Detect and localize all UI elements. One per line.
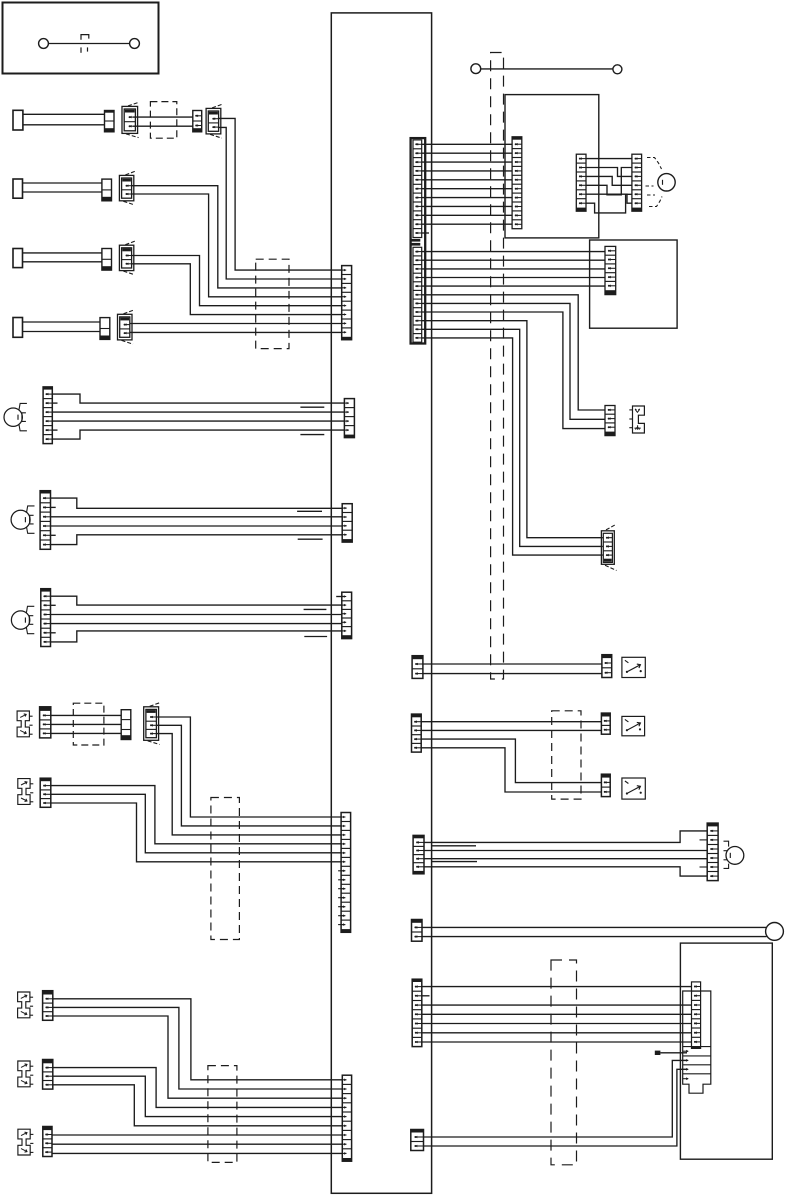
wire — [51, 794, 341, 853]
switch S4 — [18, 1061, 30, 1087]
wire — [23, 321, 101, 323]
wire — [52, 1152, 342, 1154]
connector X8 (6 cells) — [41, 589, 51, 647]
plug P1 — [13, 110, 23, 130]
dashed boundary (bottom rows) — [208, 1066, 237, 1163]
wire — [52, 1134, 342, 1136]
pin stub — [338, 897, 344, 899]
wire — [421, 721, 601, 723]
wire — [52, 430, 344, 439]
wire — [423, 673, 602, 675]
wire harness pin 4 to module M1 — [422, 170, 512, 172]
wire harness pin 7 to module M1 — [422, 197, 512, 199]
wire — [51, 714, 121, 716]
connector housing X10b — [144, 707, 159, 741]
pin stub — [338, 915, 344, 917]
lamp L2 — [11, 510, 30, 529]
wire J6-K5 — [586, 194, 632, 213]
wire harness pin 8 to module M1 — [422, 205, 512, 207]
wire — [51, 723, 121, 725]
wire harness pin 6 to module M1 — [422, 188, 512, 190]
plug P3 — [13, 249, 23, 268]
wire — [424, 858, 707, 860]
connector housing X1b — [122, 106, 138, 133]
wire — [660, 1052, 687, 1054]
wire — [132, 264, 342, 315]
switch S2 — [18, 779, 30, 805]
wire harness to X15 — [422, 295, 605, 410]
harness header frame — [411, 138, 426, 343]
dashed boundary (switch row 1) — [73, 703, 104, 745]
wire — [424, 1060, 688, 1137]
wire — [51, 631, 342, 642]
module connector strip N (7 cells) — [692, 982, 701, 1049]
connector X13 (3 cells) — [43, 1060, 53, 1090]
wire — [51, 516, 343, 518]
plug P2 — [13, 179, 23, 198]
wire harness pin 5 to module M1 — [422, 179, 512, 181]
dashed harness boundary (vertical) — [491, 53, 504, 680]
wire — [132, 194, 342, 297]
wire harness to module M2 pin 3 — [422, 268, 605, 270]
wire — [422, 1032, 692, 1034]
wire — [218, 127, 342, 279]
motor M — [658, 174, 675, 191]
wire harness to module M2 pin 4 — [422, 277, 605, 279]
wire — [51, 614, 342, 616]
wire — [52, 394, 344, 403]
switch S5 — [18, 1129, 30, 1155]
wire — [422, 1004, 692, 1006]
wire harness pin 3 to module M1 — [422, 161, 512, 163]
wire J2-K3 — [586, 168, 632, 177]
connector X12 (3 cells) — [43, 991, 53, 1021]
connector X2a — [193, 111, 202, 132]
pin arrow — [683, 1050, 689, 1052]
connector housing X16 — [601, 531, 614, 565]
wire J4-K2 — [586, 168, 632, 195]
splice bar W1 — [471, 64, 481, 74]
connector X24 (2 cells) — [412, 920, 423, 942]
connector X14 (3 cells) — [43, 1127, 52, 1157]
wire harness pin 9 to module M1 — [422, 214, 512, 216]
wire — [51, 498, 343, 508]
dashed boundary (switch rows) — [211, 798, 240, 940]
wire — [53, 1085, 343, 1126]
pin stub — [338, 879, 344, 881]
wire — [422, 338, 603, 555]
shield stub — [432, 861, 477, 863]
wire — [421, 739, 601, 783]
wire — [422, 986, 692, 988]
harness connector strip E (13 cells) — [341, 813, 351, 933]
wire — [53, 1076, 343, 1116]
wire — [422, 329, 603, 546]
harness connector strip H (11 cells) — [413, 247, 422, 342]
pin arrow — [683, 1068, 689, 1070]
wire — [52, 1143, 342, 1145]
connector X19 (4 cells) — [412, 714, 422, 752]
wire J5-K6 — [586, 194, 632, 203]
wire stub — [336, 596, 343, 598]
wire — [424, 867, 707, 876]
wire — [23, 113, 105, 115]
wire — [422, 303, 605, 419]
wire stub — [51, 506, 56, 508]
wire — [422, 1013, 692, 1015]
wire — [156, 717, 341, 817]
wire harness to module M2 pin 5 — [422, 285, 605, 287]
connector X6 (6 cells) — [43, 387, 52, 444]
central harness box — [331, 13, 431, 1193]
wire — [156, 734, 341, 835]
wire stub — [52, 429, 57, 431]
wire — [130, 331, 342, 333]
wire stub — [51, 604, 56, 606]
dashed boundary (row 1) — [150, 102, 176, 139]
connector X5a — [100, 318, 110, 340]
pin arrow — [683, 1059, 689, 1061]
wire — [23, 124, 105, 126]
pin arrow — [683, 1078, 689, 1080]
shield stub — [300, 434, 324, 436]
wire — [52, 420, 344, 422]
ring terminal — [766, 923, 784, 941]
connector X20 (2 cells) — [601, 713, 610, 734]
wire — [132, 256, 342, 306]
wire — [23, 191, 102, 193]
module connector strip L (5 cells) — [605, 246, 616, 294]
module connector strip I (10 cells) — [512, 137, 522, 229]
connector X11 (3 cells) — [40, 778, 51, 807]
wire harness pin 1 to module M1 — [422, 143, 512, 145]
harness connector strip G (11 cells) — [413, 140, 422, 238]
wire — [130, 323, 342, 325]
wire — [52, 411, 344, 413]
wire — [51, 525, 343, 527]
lamp L4 — [726, 847, 744, 865]
wire — [422, 926, 766, 928]
wire — [423, 663, 602, 665]
connector housing X4b — [119, 245, 133, 270]
wire — [51, 786, 341, 844]
lamp L1 — [4, 408, 22, 426]
fuse F1 — [39, 39, 49, 49]
connector X26 (2 cells) — [411, 1130, 424, 1151]
wire harness to module M2 pin 1 — [422, 251, 605, 253]
harness connector strip A (8 cells) — [342, 266, 352, 340]
dashed boundary (rows 1-4) — [256, 259, 289, 348]
wire stub — [52, 402, 57, 404]
wire — [51, 535, 343, 545]
module box M2 — [590, 240, 678, 328]
wire — [23, 261, 102, 263]
wire — [424, 850, 707, 852]
connector X15 (3 cells) — [605, 406, 615, 436]
connector X17 (2 cells) — [412, 656, 423, 679]
switch S9 — [622, 778, 645, 799]
wire — [51, 623, 342, 625]
harness connector strip C (4 cells) — [342, 504, 352, 542]
wire — [53, 1016, 343, 1098]
separator — [412, 243, 421, 246]
shield stub — [298, 538, 323, 540]
pin stub — [338, 924, 344, 926]
wire — [422, 1023, 692, 1025]
plug P4 — [13, 318, 23, 338]
wire — [421, 729, 601, 731]
wire — [424, 831, 707, 843]
connector X4a — [102, 249, 112, 271]
wire — [23, 331, 101, 333]
pin stub — [338, 888, 344, 890]
wire J3-K4 — [586, 176, 632, 185]
wire harness pin 10 to module M1 — [422, 223, 512, 225]
module box M1 — [505, 95, 599, 238]
connector X10a — [121, 710, 131, 740]
wire harness to X16 — [422, 321, 603, 538]
connector housing X3b — [119, 175, 133, 200]
wire — [218, 118, 342, 270]
wire J1-K1 — [586, 158, 632, 160]
shield stub — [304, 608, 327, 610]
pin stub — [338, 870, 344, 872]
connector X1a — [105, 111, 115, 132]
lamp L3 — [11, 611, 29, 629]
wire stub — [422, 232, 429, 234]
wire — [156, 725, 341, 826]
switch S1 — [17, 711, 29, 737]
connector X21 (2 cells) — [601, 774, 610, 796]
module box M3 — [680, 943, 772, 1159]
wire harness pin 2 to module M1 — [422, 152, 512, 154]
separator — [412, 239, 421, 242]
switch S7 — [622, 657, 645, 677]
wire — [132, 186, 342, 288]
pin stub — [700, 866, 708, 868]
pin stub — [338, 906, 344, 908]
wire — [53, 1068, 343, 1108]
wire — [23, 252, 102, 254]
wire stub — [422, 995, 430, 997]
connector X23 (6 cells) — [707, 823, 718, 881]
dashed boundary (bottom right) — [551, 960, 577, 1165]
connector housing X5b — [118, 314, 133, 340]
module rows — [683, 1046, 711, 1048]
connector X3a — [102, 179, 112, 201]
wire — [133, 116, 150, 118]
shield stub — [297, 510, 322, 512]
switch S8 — [622, 716, 645, 735]
motor driver strip J (6 cells) — [576, 154, 586, 211]
pin stub — [700, 839, 708, 841]
connector housing X2b — [206, 108, 221, 133]
wire — [53, 999, 343, 1080]
connector X25 (7 cells) — [412, 979, 422, 1046]
wire — [424, 1069, 688, 1146]
wire — [53, 1007, 343, 1089]
switch S6 — [633, 406, 645, 433]
dashed boundary (right row 2) — [552, 711, 581, 799]
motor connector strip K (6 cells) — [632, 154, 642, 211]
connector X9 (3 cells) — [40, 707, 51, 738]
wire — [422, 1041, 692, 1043]
wire — [51, 803, 341, 862]
wire stub — [51, 632, 56, 634]
harness connector strip F (9 cells) — [342, 1075, 351, 1161]
wire — [422, 936, 767, 938]
wire — [422, 312, 605, 429]
splice dot — [655, 1051, 661, 1055]
shield stub — [432, 845, 476, 847]
shield stub — [304, 636, 327, 638]
shield stub — [300, 406, 324, 408]
harness connector strip B (4 cells) — [344, 399, 354, 438]
wire — [51, 732, 121, 734]
wire — [23, 182, 102, 184]
wire — [421, 748, 601, 792]
harness connector strip D (5 cells) — [342, 592, 352, 638]
connector X7 (6 cells) — [40, 491, 50, 550]
switch S3 — [18, 992, 30, 1018]
legend box — [3, 3, 159, 74]
wire — [51, 596, 342, 605]
connector X22 (4 cells) — [413, 835, 424, 873]
module outline — [683, 991, 711, 1093]
wire harness to module M2 pin 2 — [422, 259, 605, 261]
wire stub — [51, 534, 56, 536]
connector X18 (2 cells) — [602, 655, 612, 678]
